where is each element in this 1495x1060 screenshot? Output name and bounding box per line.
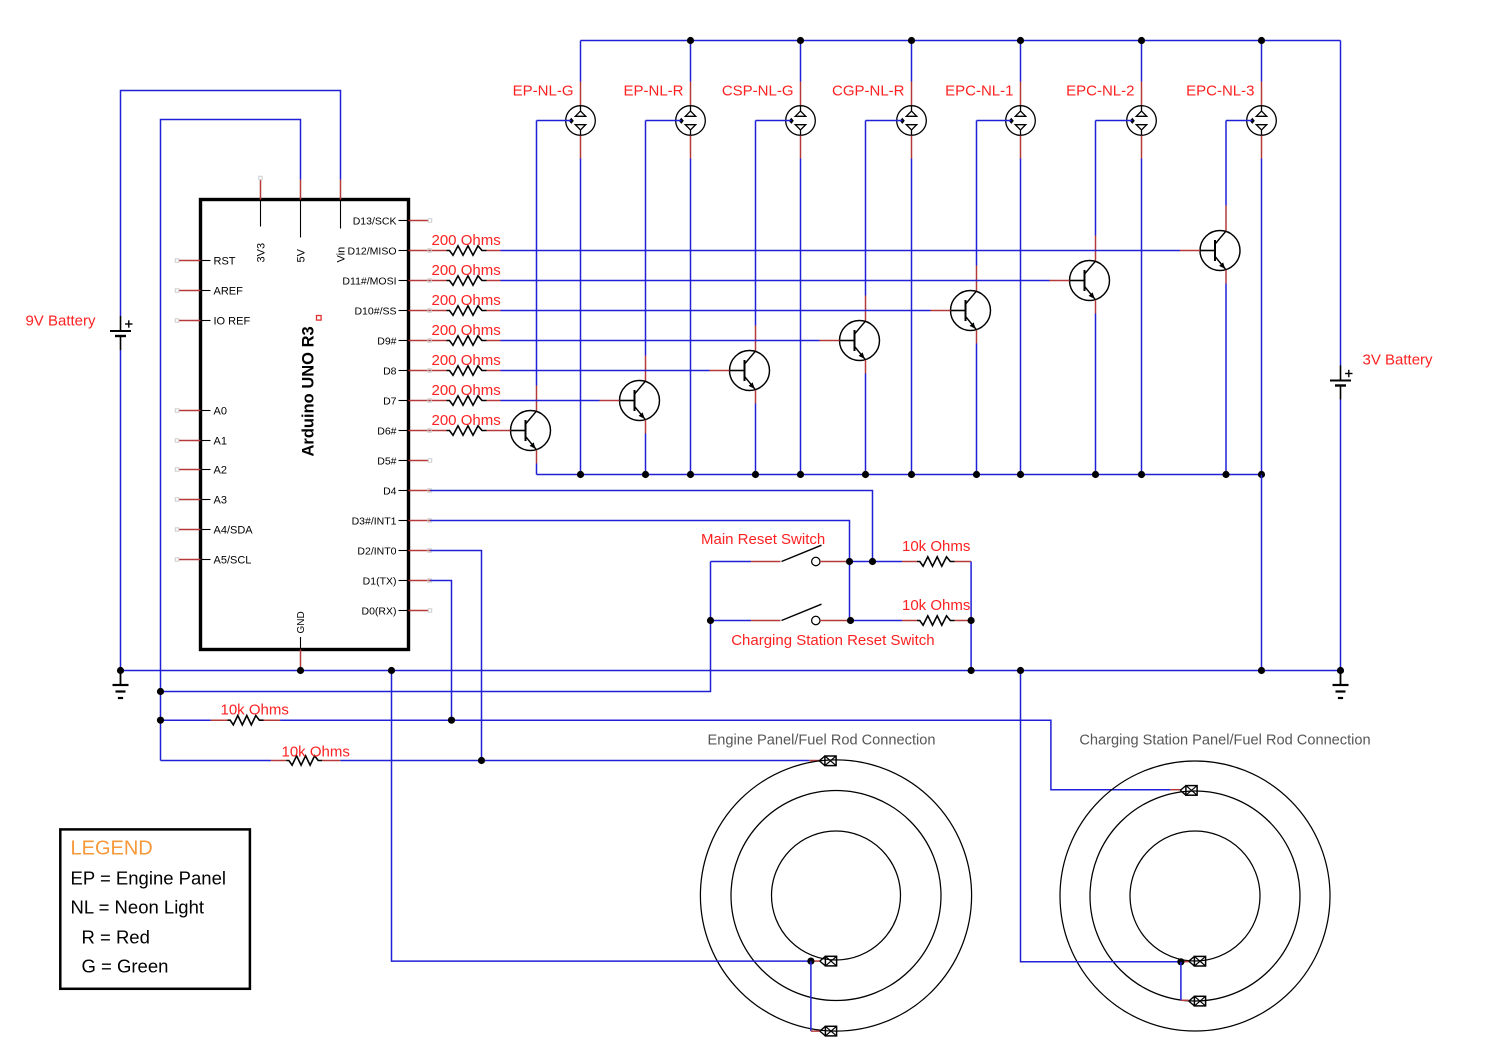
pin stub D0(RX) bbox=[409, 609, 432, 612]
pin label D6# bbox=[377, 426, 408, 438]
resistor 200 Ohms row D12 bbox=[409, 246, 1201, 255]
wire 9V+ to Vin bbox=[121, 91, 341, 317]
junction emitter bus x580 bbox=[577, 471, 584, 478]
svg-text:NL = Neon Light: NL = Neon Light bbox=[71, 897, 205, 918]
svg-text:200 Ohms: 200 Ohms bbox=[432, 352, 501, 369]
wire 3V- to ground bus bbox=[1340, 400, 1342, 671]
junction ground engine feed bbox=[388, 667, 395, 674]
wire D4 to main reset switch bbox=[409, 489, 873, 562]
svg-text:D1(TX): D1(TX) bbox=[363, 576, 397, 588]
label Engine Panel/Fuel Rod Connection bbox=[708, 733, 936, 749]
transistor Q4 bbox=[840, 321, 880, 361]
junction ground bus right bbox=[1337, 667, 1344, 674]
wire Q2 emitter to emitter bus bbox=[645, 434, 647, 475]
pin stub 3V3 bbox=[259, 176, 262, 199]
switch SW2 charging station reset row bbox=[711, 604, 972, 625]
label 200 Ohms row D10 bbox=[432, 292, 501, 309]
label CGP-NL-R bbox=[832, 83, 905, 100]
wire lamp CGP-NL-R top bbox=[911, 41, 913, 106]
neon lamp EP-NL-G bbox=[566, 106, 596, 136]
label 10k Ohms row1 bbox=[221, 702, 289, 719]
svg-text:10k Ohms: 10k Ohms bbox=[221, 702, 289, 719]
connector engine mid bbox=[820, 956, 837, 966]
wire lamp EP-NL-R bottom bbox=[690, 136, 692, 475]
pin stub A1 bbox=[175, 439, 200, 442]
label 200 Ohms row D11 bbox=[432, 262, 501, 279]
resistor 200 Ohms row D9 bbox=[409, 336, 840, 345]
transistor Q1 bbox=[511, 411, 551, 451]
wire lamp EP-NL-G top bbox=[580, 41, 582, 106]
junction ground bus x1261 bbox=[1258, 667, 1265, 674]
pin label RST bbox=[201, 256, 236, 268]
svg-text:10k Ohms: 10k Ohms bbox=[902, 538, 970, 555]
pin label 5V bbox=[296, 201, 308, 263]
wire lamp EPC-NL-3 anode to transistor Q1 collector bbox=[1226, 121, 1253, 206]
connector engine bottom bbox=[820, 1026, 837, 1036]
svg-text:CGP-NL-R: CGP-NL-R bbox=[832, 83, 905, 100]
pin label D1(TX) bbox=[363, 576, 408, 588]
transistor Q1 emitter stub bbox=[536, 450, 538, 464]
wire lamp EPC-NL-2 bottom bbox=[1141, 136, 1143, 475]
svg-text:A3: A3 bbox=[214, 495, 227, 507]
battery BT1 9V bbox=[110, 316, 133, 350]
junction emitter bus x1095 bbox=[1092, 471, 1099, 478]
legend box bbox=[60, 829, 250, 988]
svg-text:D11#/MOSI: D11#/MOSI bbox=[342, 276, 396, 288]
svg-text:EP-NL-R: EP-NL-R bbox=[623, 83, 683, 100]
wire ground to charging mid bbox=[1021, 671, 1189, 962]
transistor Q6 bbox=[1070, 261, 1110, 301]
connector charging bottom bbox=[1189, 996, 1206, 1006]
wire Q1 emitter to emitter bus bbox=[536, 464, 538, 475]
transistor Q4 emitter stub bbox=[865, 360, 867, 374]
wire lamp EP-NL-G anode to transistor Q7 collector bbox=[537, 121, 572, 386]
circle engine panel inner bbox=[772, 831, 901, 960]
svg-text:EP-NL-G: EP-NL-G bbox=[513, 83, 574, 100]
pin label D8 bbox=[383, 366, 408, 378]
IC U1 Arduino UNO R3 body bbox=[201, 200, 409, 650]
circle engine panel middle bbox=[731, 791, 941, 1001]
svg-text:A0: A0 bbox=[214, 406, 227, 418]
svg-text:AREF: AREF bbox=[214, 286, 244, 298]
wire 10k row1 to charging panel bbox=[280, 720, 1180, 790]
svg-text:A1: A1 bbox=[214, 436, 227, 448]
wire lamp EPC-NL-2 anode to transistor Q2 collector bbox=[1096, 121, 1133, 236]
svg-text:D7: D7 bbox=[383, 396, 397, 408]
svg-text:A4/SDA: A4/SDA bbox=[214, 525, 254, 537]
junction GND stub bbox=[297, 667, 304, 674]
label 200 Ohms row D12 bbox=[432, 232, 501, 249]
neon lamp EPC-NL-2 bbox=[1127, 106, 1157, 136]
svg-text:EPC-NL-2: EPC-NL-2 bbox=[1066, 83, 1134, 100]
wire lamp EP-NL-R top bbox=[690, 41, 692, 106]
connector charging top bbox=[1180, 786, 1197, 796]
label EP-NL-R bbox=[623, 83, 683, 100]
pin stub AREF bbox=[175, 289, 200, 292]
pin stub RST bbox=[175, 259, 200, 262]
neon lamp EPC-NL-1 bbox=[1006, 106, 1036, 136]
junction emitter bus x976 bbox=[973, 471, 980, 478]
svg-text:EPC-NL-1: EPC-NL-1 bbox=[945, 83, 1013, 100]
pin stub A2 bbox=[175, 468, 200, 471]
pin stub Vin bbox=[340, 180, 342, 200]
transistor Q5 bbox=[951, 291, 991, 331]
svg-text:D6#: D6# bbox=[377, 426, 396, 438]
pin label A5/SCL bbox=[201, 555, 251, 567]
junction emitter bus x1020 bbox=[1017, 471, 1024, 478]
transistor Q3 emitter stub bbox=[755, 390, 757, 404]
wire lamp EP-NL-G bottom bbox=[580, 136, 582, 475]
wire lamp CGP-NL-R bottom bbox=[911, 136, 913, 475]
svg-text:D9#: D9# bbox=[377, 336, 396, 348]
wire Q4 emitter to emitter bus bbox=[865, 374, 867, 475]
junction D4 main switch bbox=[869, 558, 876, 565]
svg-text:200 Ohms: 200 Ohms bbox=[432, 412, 501, 429]
legend item EP bbox=[71, 868, 227, 889]
wire lamp EPC-NL-1 anode to transistor Q3 collector bbox=[977, 121, 1012, 266]
battery BT2 3V bbox=[1330, 366, 1353, 400]
junction D2 10k row2 bbox=[478, 757, 485, 764]
svg-text:D10#/SS: D10#/SS bbox=[354, 306, 396, 318]
neon lamp CGP-NL-R bbox=[897, 106, 927, 136]
wire lamp EPC-NL-1 top bbox=[1020, 41, 1022, 106]
label 9V Battery bbox=[25, 313, 96, 330]
label Main Reset Switch bbox=[701, 531, 825, 548]
pin stub A0 bbox=[175, 409, 200, 412]
junction 5V switch feed bbox=[707, 617, 714, 624]
junction emitter bus x911 bbox=[908, 471, 915, 478]
transistor Q7 bbox=[1200, 231, 1240, 271]
pin label D3#/INT1 bbox=[352, 516, 408, 528]
pin label A1 bbox=[201, 436, 227, 448]
legend item NL bbox=[71, 897, 205, 918]
svg-text:200 Ohms: 200 Ohms bbox=[432, 382, 501, 399]
transistor Q6 collector stub bbox=[1095, 236, 1097, 262]
circle engine panel outer bbox=[700, 760, 971, 1031]
junction D3 main switch bbox=[846, 558, 853, 565]
svg-text:LEGEND: LEGEND bbox=[71, 838, 153, 860]
svg-text:D3#/INT1: D3#/INT1 bbox=[352, 516, 397, 528]
label Charging Station Reset Switch bbox=[731, 632, 934, 649]
svg-text:Arduino UNO R3: Arduino UNO R3 bbox=[300, 326, 318, 456]
resistor 10k row1 bbox=[161, 716, 281, 725]
pin label D2/INT0 bbox=[357, 546, 408, 558]
pin label A4/SDA bbox=[201, 525, 253, 537]
pin label D13/SCK bbox=[353, 216, 408, 228]
pin label D9# bbox=[377, 336, 408, 348]
junction emitter bus x800 bbox=[797, 471, 804, 478]
pin label D0(RX) bbox=[361, 606, 408, 618]
svg-text:D5#: D5# bbox=[377, 456, 396, 468]
svg-text:D8: D8 bbox=[383, 366, 397, 378]
IC U1 name label bbox=[300, 316, 322, 457]
wire ground to engine mid bbox=[392, 671, 820, 962]
junction emitter bus x865 bbox=[862, 471, 869, 478]
transistor Q2 collector stub bbox=[645, 356, 647, 382]
label EPC-NL-1 bbox=[945, 83, 1013, 100]
pin label D5# bbox=[377, 456, 408, 468]
label EPC-NL-3 bbox=[1186, 83, 1254, 100]
pin stub A3 bbox=[175, 498, 200, 501]
pin label D12/MISO bbox=[347, 246, 408, 258]
junction 5V vertical y691 bbox=[157, 688, 164, 695]
junction ground bus left bbox=[117, 667, 124, 674]
wire lamp CSP-NL-G anode to transistor Q5 collector bbox=[756, 121, 792, 326]
junction emitter bus x1141 bbox=[1138, 471, 1145, 478]
wire lamp CSP-NL-G bottom bbox=[800, 136, 802, 475]
svg-text:200 Ohms: 200 Ohms bbox=[432, 232, 501, 249]
label 10k Ohms at y620 bbox=[902, 597, 970, 614]
resistor 200 Ohms row D7 bbox=[409, 396, 620, 405]
junction emitter bus x645 bbox=[642, 471, 649, 478]
wire Q7 emitter to emitter bus bbox=[1225, 284, 1227, 475]
wire top bus bbox=[581, 40, 1341, 42]
junction top bus lamp EPC-NL-1 bbox=[1017, 37, 1024, 44]
pin stub D13/SCK bbox=[409, 219, 432, 222]
svg-text:D13/SCK: D13/SCK bbox=[353, 216, 397, 228]
junction engine mid bbox=[807, 958, 814, 965]
label 10k Ohms row2 bbox=[282, 744, 350, 761]
wire lamp CSP-NL-G top bbox=[800, 41, 802, 106]
circle charging panel inner bbox=[1130, 831, 1260, 961]
pin label IO REF bbox=[201, 316, 250, 328]
label 200 Ohms row D9 bbox=[432, 322, 501, 339]
junction D3 charging switch bbox=[847, 617, 854, 624]
pin label 3V3 bbox=[256, 201, 268, 263]
ground GND2 right bbox=[1333, 671, 1349, 699]
svg-text:5V: 5V bbox=[296, 248, 308, 262]
wire 5V to switch commons bbox=[161, 562, 711, 692]
junction D1 10k row1 bbox=[448, 717, 455, 724]
wire 3V+ from top bus bbox=[1340, 41, 1342, 366]
svg-text:Charging Station Reset Switch: Charging Station Reset Switch bbox=[731, 632, 934, 649]
wire 5V loop bbox=[161, 120, 301, 761]
svg-text:3V Battery: 3V Battery bbox=[1363, 352, 1434, 369]
transistor Q3 bbox=[730, 351, 770, 391]
wire lamp EPC-NL-3 top bbox=[1261, 41, 1263, 106]
svg-text:Vin: Vin bbox=[336, 247, 348, 263]
transistor Q7 emitter stub bbox=[1225, 270, 1227, 284]
svg-text:D12/MISO: D12/MISO bbox=[347, 246, 396, 258]
transistor Q4 collector stub bbox=[865, 296, 867, 322]
pin stub 5V bbox=[300, 180, 302, 200]
svg-text:Main Reset Switch: Main Reset Switch bbox=[701, 531, 825, 548]
neon lamp CSP-NL-G bbox=[786, 106, 816, 136]
circle charging panel outer bbox=[1060, 761, 1330, 1031]
pin label A3 bbox=[201, 495, 227, 507]
svg-text:R = Red: R = Red bbox=[82, 927, 150, 948]
label 3V Battery bbox=[1363, 352, 1434, 369]
junction top bus lamp EP-NL-R bbox=[687, 37, 694, 44]
svg-text:Charging Station Panel/Fuel Ro: Charging Station Panel/Fuel Rod Connecti… bbox=[1079, 733, 1370, 749]
wire ground bus bbox=[121, 670, 1341, 672]
pin label D7 bbox=[383, 396, 408, 408]
wire charging mid to bottom bbox=[1181, 962, 1189, 1001]
switch SW1 main reset row bbox=[711, 545, 972, 566]
pin stub D5# bbox=[409, 459, 432, 462]
junction top bus lamp EPC-NL-3 bbox=[1258, 37, 1265, 44]
label EP-NL-G bbox=[513, 83, 574, 100]
svg-text:CSP-NL-G: CSP-NL-G bbox=[722, 83, 794, 100]
pin label A0 bbox=[201, 406, 227, 418]
svg-text:G = Green: G = Green bbox=[82, 956, 169, 977]
pin label D4 bbox=[383, 486, 408, 498]
wire engine mid to bottom bbox=[811, 961, 820, 1031]
wire 10k row2 to engine panel bbox=[340, 760, 819, 762]
wire D2 to 10k row2 bbox=[409, 549, 482, 761]
svg-text:EP = Engine Panel: EP = Engine Panel bbox=[71, 868, 227, 889]
transistor Q1 collector stub bbox=[536, 386, 538, 412]
ground GND1 left bbox=[113, 671, 129, 699]
junction emitter bus x1261 bbox=[1258, 471, 1265, 478]
svg-text:IO REF: IO REF bbox=[214, 316, 251, 328]
label EPC-NL-2 bbox=[1066, 83, 1134, 100]
junction switch drop ground bus bbox=[968, 667, 975, 674]
pin stub A5/SCL bbox=[175, 558, 200, 561]
pin label AREF bbox=[201, 286, 243, 298]
wire lamp7 column to ground bus bbox=[1261, 475, 1263, 671]
wire emitter bus bbox=[537, 474, 1262, 476]
legend item R bbox=[82, 927, 150, 948]
resistor 200 Ohms row D8 bbox=[409, 366, 730, 375]
pin label D11#/MOSI bbox=[342, 276, 408, 288]
wire lamp EPC-NL-1 bottom bbox=[1020, 136, 1022, 475]
svg-text:3V3: 3V3 bbox=[256, 243, 268, 263]
transistor Q6 emitter stub bbox=[1095, 300, 1097, 314]
svg-text:200 Ohms: 200 Ohms bbox=[432, 322, 501, 339]
svg-text:10k Ohms: 10k Ohms bbox=[902, 597, 970, 614]
circle charging panel middle bbox=[1090, 791, 1300, 1001]
svg-text:200 Ohms: 200 Ohms bbox=[432, 262, 501, 279]
wire Q6 emitter to emitter bus bbox=[1095, 314, 1097, 475]
legend item G bbox=[82, 956, 169, 977]
junction 5V 10k row1 bbox=[157, 717, 164, 724]
pin label A2 bbox=[201, 465, 227, 477]
pin label GND bbox=[296, 611, 307, 649]
junction emitter bus x755 bbox=[752, 471, 759, 478]
wire 9V- to ground bus bbox=[120, 350, 122, 671]
resistor 200 Ohms row D10 bbox=[409, 306, 951, 315]
junction emitter bus x1225.5 bbox=[1222, 471, 1229, 478]
label Charging Station Panel/Fuel Rod Connection bbox=[1079, 733, 1370, 749]
wire lamp CGP-NL-R anode to transistor Q4 collector bbox=[866, 121, 903, 296]
pin label Vin bbox=[336, 201, 348, 263]
junction 10k right charging row bbox=[968, 617, 975, 624]
svg-text:D2/INT0: D2/INT0 bbox=[357, 546, 396, 558]
legend title LEGEND bbox=[71, 838, 153, 860]
wire D3 to switches bbox=[409, 519, 850, 621]
label 200 Ohms row D6 bbox=[432, 412, 501, 429]
wire lamp EPC-NL-3 bottom bbox=[1261, 136, 1263, 475]
svg-text:9V Battery: 9V Battery bbox=[25, 313, 96, 330]
svg-text:EPC-NL-3: EPC-NL-3 bbox=[1186, 83, 1254, 100]
wire lamp EPC-NL-2 top bbox=[1141, 41, 1143, 106]
transistor Q3 collector stub bbox=[755, 326, 757, 352]
wire switch right drop bbox=[970, 562, 972, 671]
wire lamp EP-NL-R anode to transistor Q6 collector bbox=[646, 121, 682, 356]
resistor 200 Ohms row D11 bbox=[409, 276, 1070, 285]
transistor Q7 collector stub bbox=[1225, 206, 1227, 232]
svg-text:Engine Panel/Fuel Rod Connecti: Engine Panel/Fuel Rod Connection bbox=[708, 733, 936, 749]
transistor Q2 emitter stub bbox=[645, 420, 647, 434]
resistor 200 Ohms row D6 bbox=[409, 426, 511, 435]
svg-text:200 Ohms: 200 Ohms bbox=[432, 292, 501, 309]
pin stub IO REF bbox=[175, 319, 200, 322]
junction top bus lamp EPC-NL-2 bbox=[1138, 37, 1145, 44]
svg-text:GND: GND bbox=[296, 611, 307, 633]
svg-text:10k Ohms: 10k Ohms bbox=[282, 744, 350, 761]
transistor Q5 collector stub bbox=[976, 266, 978, 292]
pin stub GND bbox=[300, 650, 302, 671]
pin stub A4/SDA bbox=[175, 528, 200, 531]
junction ground charging feed bbox=[1017, 667, 1024, 674]
wire Q3 emitter to emitter bus bbox=[755, 404, 757, 475]
svg-text:A5/SCL: A5/SCL bbox=[214, 555, 252, 567]
neon lamp EPC-NL-3 bbox=[1247, 106, 1277, 136]
wire D1 to 10k row1 bbox=[409, 579, 452, 720]
svg-text:A2: A2 bbox=[214, 465, 227, 477]
resistor 10k row2 bbox=[161, 756, 341, 765]
junction charging mid bbox=[1177, 958, 1184, 965]
junction emitter bus x690 bbox=[687, 471, 694, 478]
connector engine top bbox=[819, 756, 836, 766]
transistor Q5 emitter stub bbox=[976, 330, 978, 344]
svg-text:D0(RX): D0(RX) bbox=[361, 606, 396, 618]
pin label D10#/SS bbox=[354, 306, 408, 318]
connector charging mid bbox=[1189, 956, 1206, 966]
wire Q5 emitter to emitter bus bbox=[976, 344, 978, 475]
svg-text:D4: D4 bbox=[383, 486, 397, 498]
label 200 Ohms row D7 bbox=[432, 382, 501, 399]
transistor Q2 bbox=[620, 381, 660, 421]
label 10k Ohms at y561 bbox=[902, 538, 970, 555]
label CSP-NL-G bbox=[722, 83, 794, 100]
junction top bus lamp CGP-NL-R bbox=[908, 37, 915, 44]
label 200 Ohms row D8 bbox=[432, 352, 501, 369]
svg-text:RST: RST bbox=[214, 256, 236, 268]
junction top bus lamp CSP-NL-G bbox=[797, 37, 804, 44]
neon lamp EP-NL-R bbox=[676, 106, 706, 136]
